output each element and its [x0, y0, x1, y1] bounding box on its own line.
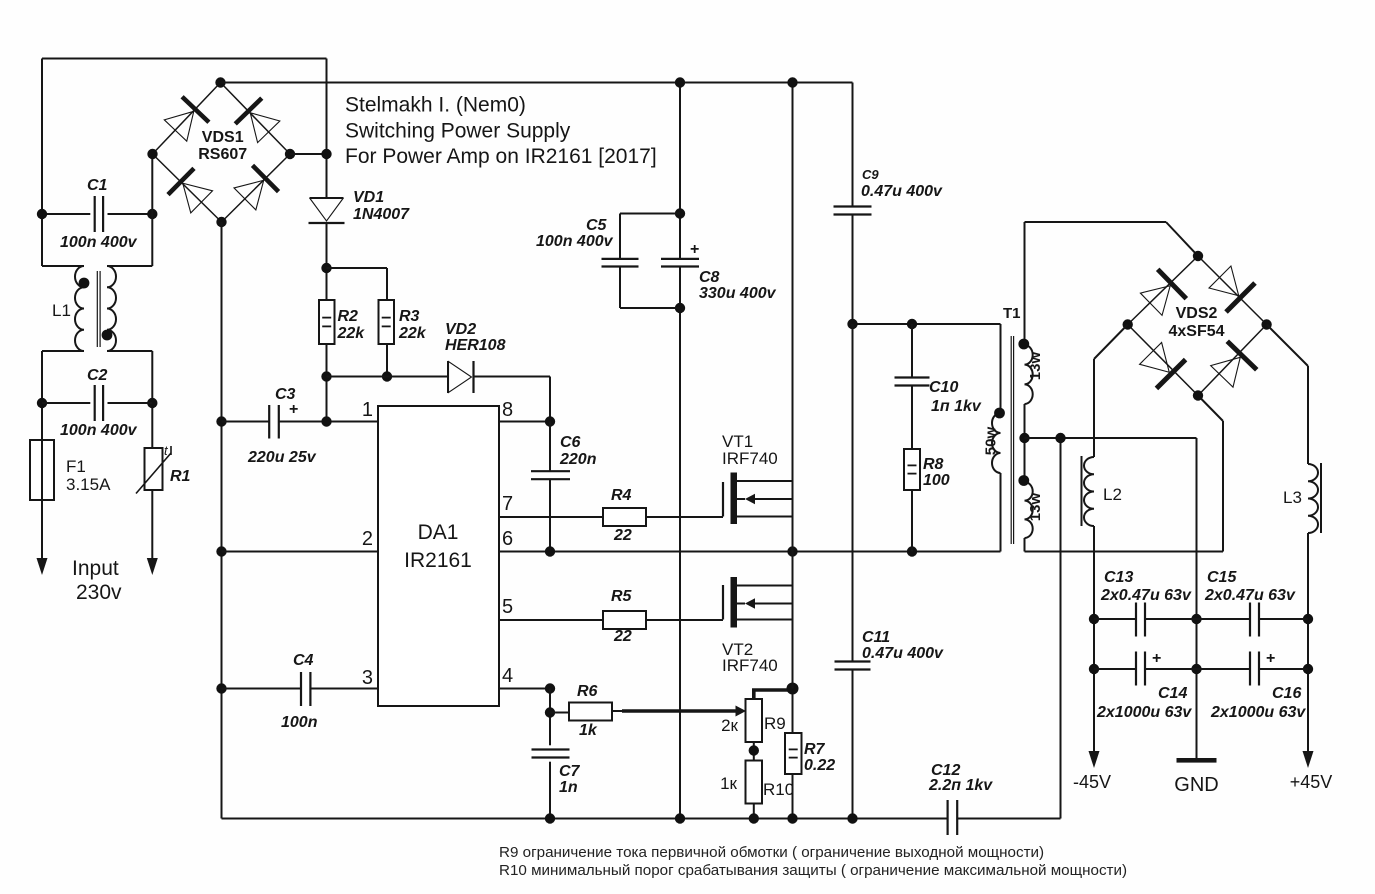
svg-text:100n 400v: 100n 400v	[536, 233, 614, 250]
svg-text:22k: 22k	[398, 325, 427, 342]
svg-text:100n: 100n	[281, 714, 318, 731]
svg-text:R10: R10	[763, 780, 794, 799]
svg-text:7: 7	[502, 493, 513, 515]
svg-text:100n 400v: 100n 400v	[60, 234, 138, 251]
svg-text:2.2п 1kv: 2.2п 1kv	[928, 777, 993, 794]
svg-text:C2: C2	[87, 367, 108, 384]
svg-text:R6: R6	[577, 683, 598, 700]
svg-text:IRF740: IRF740	[722, 449, 778, 468]
svg-text:L2: L2	[1103, 485, 1122, 504]
svg-text:VD1: VD1	[353, 189, 384, 206]
svg-text:F1: F1	[66, 457, 86, 476]
svg-text:Stelmakh I. (Nem0): Stelmakh I. (Nem0)	[345, 94, 526, 117]
svg-text:+: +	[1266, 650, 1275, 667]
svg-text:R7: R7	[804, 741, 826, 758]
svg-text:VD2: VD2	[445, 321, 476, 338]
svg-text:C16: C16	[1272, 685, 1301, 702]
svg-text:R9: R9	[764, 714, 786, 733]
svg-text:2x0.47u 63v: 2x0.47u 63v	[1100, 587, 1192, 604]
svg-text:HER108: HER108	[445, 337, 506, 354]
svg-text:220n: 220n	[559, 451, 597, 468]
svg-text:For Power Amp on IR2161 [2017]: For Power Amp on IR2161 [2017]	[345, 145, 657, 168]
svg-text:+: +	[289, 401, 298, 418]
svg-text:R10 минимальный порог срабатыв: R10 минимальный порог срабатывания защит…	[499, 862, 1127, 879]
svg-text:R3: R3	[399, 308, 420, 325]
svg-text:0.47u 400v: 0.47u 400v	[861, 183, 943, 200]
svg-text:C6: C6	[560, 434, 581, 451]
svg-text:RS607: RS607	[198, 146, 247, 163]
svg-text:Switching Power Supply: Switching Power Supply	[345, 120, 571, 143]
svg-text:C1: C1	[87, 177, 108, 194]
svg-text:T1: T1	[1003, 305, 1021, 322]
svg-text:+: +	[1152, 650, 1161, 667]
svg-text:100: 100	[923, 472, 950, 489]
svg-text:22: 22	[613, 527, 632, 544]
svg-text:DA1: DA1	[418, 521, 459, 544]
svg-text:22: 22	[613, 628, 632, 645]
svg-text:2x0.47u 63v: 2x0.47u 63v	[1204, 587, 1296, 604]
svg-text:C7: C7	[559, 763, 581, 780]
svg-text:C14: C14	[1158, 685, 1187, 702]
svg-text:1k: 1k	[579, 722, 598, 739]
svg-text:R5: R5	[611, 588, 633, 605]
svg-text:Input: Input	[72, 557, 119, 580]
svg-text:2x1000u 63v: 2x1000u 63v	[1210, 704, 1306, 721]
svg-text:13w: 13w	[1027, 351, 1044, 380]
svg-text:-45V: -45V	[1073, 772, 1111, 792]
svg-text:8: 8	[502, 399, 513, 421]
svg-text:1n: 1n	[559, 779, 578, 796]
svg-text:R9 ограничение тока первичной: R9 ограничение тока первичной обмотки ( …	[499, 844, 1044, 861]
svg-text:+45V: +45V	[1290, 772, 1333, 792]
svg-text:230v: 230v	[76, 581, 122, 604]
svg-text:C5: C5	[586, 217, 608, 234]
svg-text:3: 3	[362, 667, 373, 689]
svg-text:330u 400v: 330u 400v	[699, 285, 777, 302]
svg-text:C9: C9	[862, 167, 879, 182]
svg-text:C13: C13	[1104, 569, 1133, 586]
svg-text:R8: R8	[923, 456, 944, 473]
svg-text:2x1000u 63v: 2x1000u 63v	[1096, 704, 1192, 721]
svg-text:L1: L1	[52, 301, 71, 320]
svg-text:+: +	[690, 241, 699, 258]
svg-text:50w: 50w	[983, 426, 1000, 455]
svg-text:VDS2: VDS2	[1176, 305, 1218, 322]
svg-text:13w: 13w	[1027, 492, 1044, 521]
svg-text:5: 5	[502, 596, 513, 618]
svg-text:R4: R4	[611, 487, 632, 504]
svg-text:4xSF54: 4xSF54	[1168, 323, 1224, 340]
svg-text:0.47u 400v: 0.47u 400v	[862, 645, 944, 662]
svg-text:C15: C15	[1207, 569, 1237, 586]
svg-text:R1: R1	[170, 468, 191, 485]
svg-text:0.22: 0.22	[804, 757, 835, 774]
svg-text:R2: R2	[338, 308, 359, 325]
svg-text:1N4007: 1N4007	[353, 206, 410, 223]
svg-text:6: 6	[502, 528, 513, 550]
svg-text:L3: L3	[1283, 488, 1302, 507]
svg-text:2: 2	[362, 528, 373, 550]
svg-text:1п 1kv: 1п 1kv	[931, 398, 982, 415]
svg-text:2к: 2к	[721, 716, 738, 735]
svg-text:220u 25v: 220u 25v	[247, 449, 317, 466]
svg-text:1: 1	[362, 399, 373, 421]
svg-text:3.15A: 3.15A	[66, 475, 111, 494]
svg-text:IRF740: IRF740	[722, 656, 778, 675]
svg-text:C10: C10	[929, 379, 958, 396]
svg-text:1к: 1к	[720, 774, 737, 793]
svg-text:C8: C8	[699, 269, 720, 286]
svg-text:C4: C4	[293, 652, 314, 669]
svg-text:C11: C11	[862, 629, 890, 646]
svg-text:VDS1: VDS1	[202, 129, 244, 146]
svg-text:22k: 22k	[337, 325, 366, 342]
svg-text:GND: GND	[1174, 774, 1218, 796]
svg-text:100n 400v: 100n 400v	[60, 422, 138, 439]
svg-text:IR2161: IR2161	[404, 549, 472, 572]
svg-text:4: 4	[502, 665, 513, 687]
